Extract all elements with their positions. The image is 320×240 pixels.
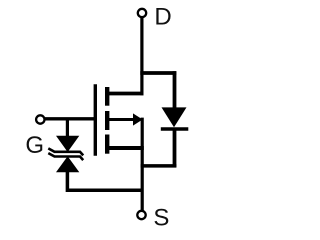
wire: branch from S wire to diode bottom [141,164,177,168]
mosfet Q1: body lead with arrow [107,118,135,121]
zener Z1: bottom triangle (pointing up) [56,156,79,172]
mosfet Q1: drain lead [107,92,144,96]
wire: gate horizontal [41,117,97,120]
svg-text:D: D [154,3,171,30]
wire: zener bottom lead and bottom run to S [67,172,142,191]
wire: diode top lead [173,71,177,108]
mosfet Q1: gate line [94,84,97,156]
wire: branch from D to diode top [140,71,176,75]
diode D1 cathode bar [161,127,189,130]
mosfet Q1: drain channel bar [105,87,109,106]
wire: S vertical (arrow tip to S terminal) [141,118,144,214]
diode D1 (body diode) triangle anode [162,107,187,127]
mosfet Q1: body arrowhead [133,113,143,125]
svg-text:S: S [153,204,169,231]
zener Z1: lower cathode bar [48,153,83,160]
terminal D (open circle) [138,9,146,17]
mosfet Q1: source lead [107,146,144,150]
zener Z1: top triangle (pointing down) [56,136,79,152]
terminal G (open circle) [36,115,44,123]
mosfet Q1: source channel bar [105,135,109,154]
wire: D vertical drop [140,14,143,96]
terminal S (open circle) [137,211,145,219]
svg-text:G: G [25,132,44,159]
mosfet Q1: body channel bar [105,111,109,130]
zener Z1: top lead [66,119,69,137]
zener Z1: upper cathode bar [48,148,83,155]
wire: diode bottom lead [173,131,177,168]
